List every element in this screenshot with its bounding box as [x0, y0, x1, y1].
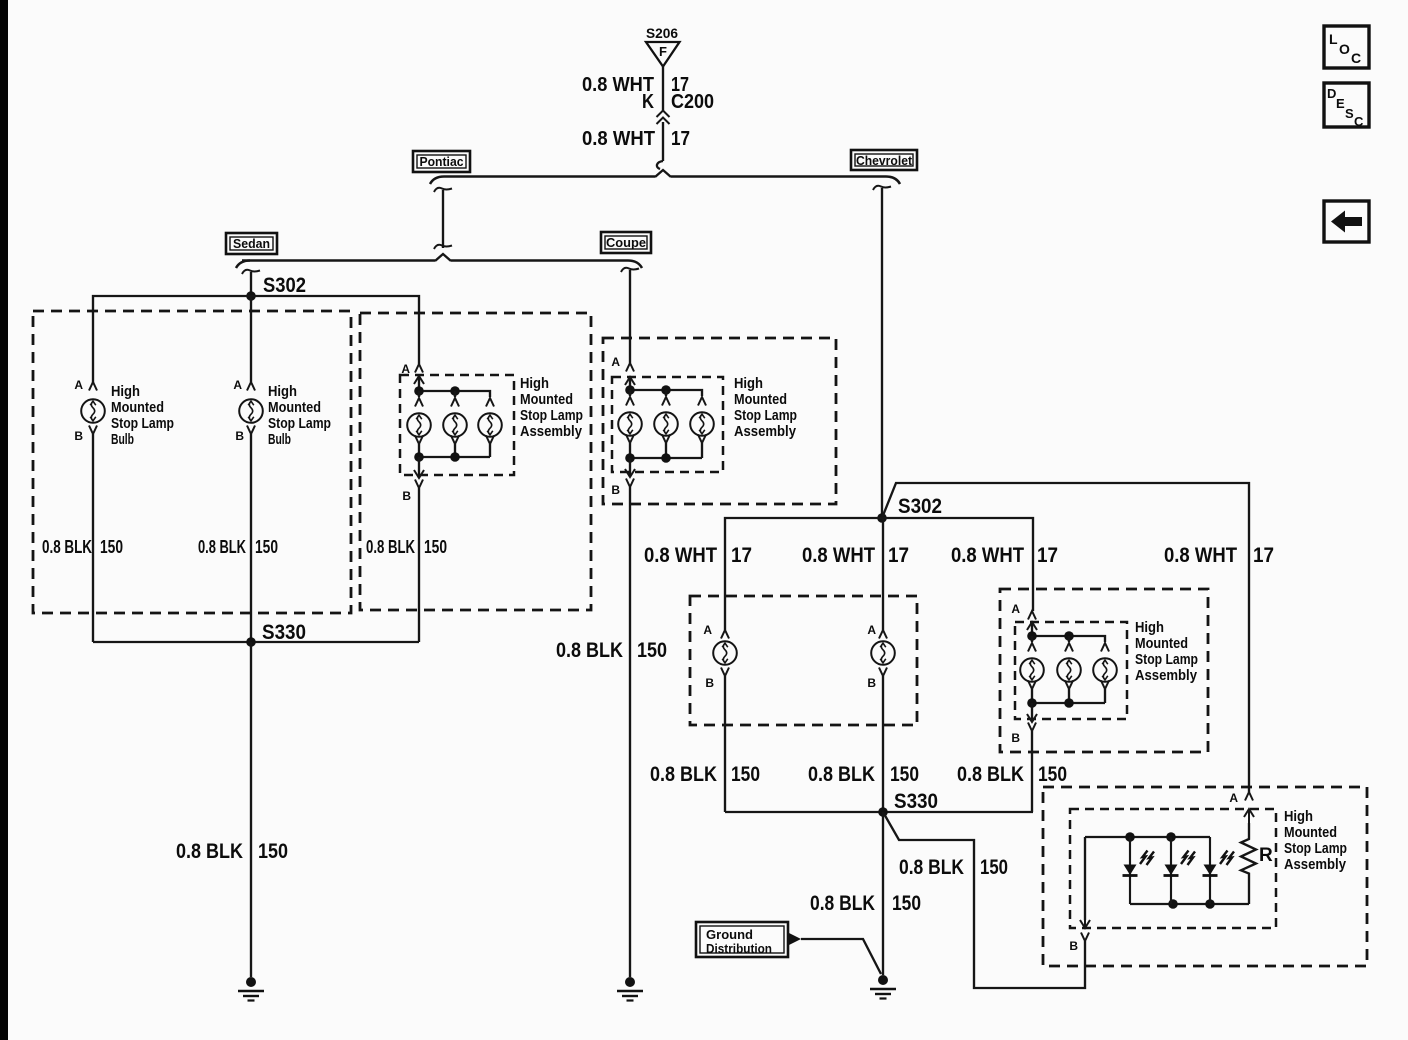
- svg-text:0.8 BLK: 0.8 BLK: [957, 763, 1024, 786]
- chevrolet ground wire: [882, 812, 884, 975]
- svg-text:A: A: [867, 623, 876, 637]
- svg-text:Assembly: Assembly: [1135, 667, 1198, 684]
- label 0.8 BLK 150 (led assembly return): [899, 856, 1008, 879]
- coupe assembly bulb a: [618, 412, 642, 436]
- sedan assembly bulb c: [478, 413, 502, 437]
- label 0.8 WHT 17 (chev wire 1): [644, 544, 752, 567]
- dashed box coupe stop lamp assembly: [603, 338, 836, 504]
- wire from S206 to C200: [662, 66, 664, 111]
- svg-text:Pontiac: Pontiac: [420, 154, 464, 169]
- svg-text:Ground: Ground: [706, 927, 753, 942]
- svg-text:0.8 WHT: 0.8 WHT: [802, 544, 875, 567]
- dashed box chevrolet stop lamp bulbs: [690, 596, 917, 725]
- DESC legend box: [1324, 83, 1369, 129]
- bulb 1 (high mounted stop lamp bulb): [81, 399, 105, 423]
- svg-text:Mounted: Mounted: [734, 391, 787, 408]
- label 0.8 BLK 150 (sedan ground): [176, 840, 288, 863]
- svg-text:17: 17: [888, 544, 909, 567]
- svg-text:Stop Lamp: Stop Lamp: [268, 415, 331, 432]
- bus left end hook: [236, 261, 250, 269]
- chev bulb1 B wire: [724, 676, 726, 812]
- sedan assembly bulb stubs top: [419, 391, 455, 397]
- svg-text:Mounted: Mounted: [268, 399, 321, 416]
- chev bulb2 B wire: [882, 676, 884, 812]
- back arrow legend box: [1324, 201, 1369, 242]
- label 0.8 BLK 150 (chev wire 1): [650, 763, 760, 786]
- svg-text:B: B: [705, 676, 714, 690]
- sedan assembly bulb a: [407, 413, 431, 437]
- Pontiac box: [413, 151, 470, 172]
- label High Mounted Stop Lamp Assembly (sedan): [520, 375, 583, 440]
- sedan top wire: [93, 296, 419, 383]
- svg-text:0.8 BLK: 0.8 BLK: [42, 537, 92, 557]
- svg-text:S206: S206: [646, 25, 678, 41]
- svg-text:Mounted: Mounted: [111, 399, 164, 416]
- svg-text:A: A: [1229, 791, 1238, 805]
- svg-text:0.8 WHT: 0.8 WHT: [1164, 544, 1237, 567]
- svg-text:Bulb: Bulb: [111, 431, 134, 448]
- connector C200 label K: [642, 91, 714, 113]
- chev assembly bottom bus: [1032, 702, 1105, 704]
- bus left end hook: [430, 177, 444, 185]
- chev assembly bulb stubs top: [1032, 636, 1069, 642]
- label High Mounted Stop Lamp Assembly (coupe): [734, 375, 797, 440]
- svg-text:0.8 BLK: 0.8 BLK: [556, 639, 623, 662]
- terminal A chev assembly: [1028, 611, 1036, 620]
- svg-text:Bulb: Bulb: [268, 431, 291, 448]
- terminal B sedan assembly: [415, 480, 423, 489]
- sedan assembly bulb b: [443, 413, 467, 437]
- svg-text:S330: S330: [894, 790, 938, 813]
- svg-text:E: E: [1336, 96, 1345, 111]
- svg-text:B: B: [74, 429, 83, 443]
- chev center wire S302 to S330: [882, 518, 884, 630]
- label 0.8 BLK 150 (chev ground): [810, 892, 921, 915]
- svg-text:B: B: [402, 489, 411, 503]
- bus right end hook: [886, 177, 900, 185]
- svg-text:D: D: [1327, 86, 1336, 101]
- junction dots coupe assembly bottom: [625, 453, 635, 463]
- svg-text:High: High: [1135, 619, 1164, 636]
- label High Mounted Stop Lamp Assembly (chev): [1135, 619, 1198, 684]
- chev bulb 2: [871, 641, 895, 665]
- label 0.8 BLK 150 (sedan assembly): [366, 537, 447, 557]
- sedan assembly top bus: [419, 376, 490, 397]
- chev assembly bulb b: [1057, 658, 1081, 682]
- junction dots coupe assembly top: [625, 385, 635, 395]
- Coupe box: [601, 232, 651, 253]
- svg-text:A: A: [611, 355, 620, 369]
- svg-text:B: B: [611, 483, 620, 497]
- chev assembly bulb c: [1093, 658, 1117, 682]
- wire S302 to far right branch: [882, 483, 1249, 792]
- coupe assembly top bus: [630, 377, 702, 396]
- svg-text:Assembly: Assembly: [520, 423, 583, 440]
- label High Mounted Stop Lamp Assembly (led): [1284, 808, 1347, 873]
- inner dashed box chev assembly: [1015, 622, 1127, 719]
- arrow out of led assembly: [1080, 914, 1090, 928]
- label 0.8 BLK 150 (chev wire 2): [808, 763, 919, 786]
- svg-text:S: S: [1345, 106, 1354, 121]
- junction dots chev assembly top: [1027, 631, 1037, 641]
- label 0.8 WHT 17 (below C200): [582, 128, 690, 150]
- terminal A led assembly: [1245, 792, 1253, 801]
- bulb 1 B terminal: [89, 426, 97, 435]
- led assembly left return wire: [1084, 837, 1086, 920]
- svg-text:Assembly: Assembly: [1284, 856, 1347, 873]
- svg-text:150: 150: [424, 537, 447, 557]
- label High Mounted Stop Lamp Bulb (bulb2): [268, 383, 331, 448]
- terminal A chev bulb2: [879, 630, 887, 639]
- svg-text:0.8 BLK: 0.8 BLK: [198, 537, 246, 557]
- wire Ground Distribution to ground: [801, 939, 881, 974]
- svg-text:B: B: [235, 429, 244, 443]
- svg-text:0.8 WHT: 0.8 WHT: [644, 544, 717, 567]
- Pontiac branch wire: [434, 188, 452, 249]
- Ground Distribution arrow: [788, 933, 801, 946]
- svg-text:17: 17: [1253, 544, 1274, 567]
- svg-text:Assembly: Assembly: [734, 423, 797, 440]
- label 0.8 WHT 17 (above C200): [582, 74, 689, 96]
- led assembly bottom bus: [1130, 903, 1249, 905]
- svg-text:0.8 BLK: 0.8 BLK: [899, 856, 964, 879]
- svg-text:R: R: [1259, 845, 1273, 866]
- svg-text:Chevrolet: Chevrolet: [856, 153, 913, 168]
- chev assembly B wire: [1031, 731, 1033, 812]
- coupe assembly B wire to ground: [629, 487, 631, 977]
- junction dots sedan assembly top: [414, 386, 424, 396]
- svg-text:150: 150: [980, 856, 1008, 879]
- svg-text:A: A: [233, 378, 242, 392]
- svg-text:A: A: [1011, 602, 1020, 616]
- terminal B coupe assembly: [626, 479, 634, 488]
- label 0.8 BLK 150 (coupe ground): [556, 639, 667, 662]
- arrow into coupe assembly: [625, 377, 635, 391]
- wire C200 to main bus: [662, 122, 664, 161]
- chev bulb1 B terminal: [721, 668, 729, 677]
- svg-text:Mounted: Mounted: [1135, 635, 1188, 652]
- label 0.8 WHT 17 (chev wire 2): [802, 544, 909, 567]
- arrow into led assembly: [1244, 809, 1254, 823]
- coupe assembly bulb b: [654, 412, 678, 436]
- chev bulb2 B terminal: [879, 668, 887, 677]
- Chevrolet box: [851, 150, 917, 170]
- svg-text:Stop Lamp: Stop Lamp: [734, 407, 797, 424]
- chev bulb 1: [713, 641, 737, 665]
- Sedan box: [226, 233, 277, 254]
- junction dots sedan assembly bottom: [414, 452, 424, 462]
- main bus wire (top horizontal): [444, 175, 886, 178]
- svg-text:F: F: [659, 44, 667, 59]
- chevrolet bottom bus wire: [725, 811, 1033, 813]
- svg-text:S302: S302: [263, 274, 306, 297]
- svg-text:Stop Lamp: Stop Lamp: [1135, 651, 1198, 668]
- svg-text:0.8 BLK: 0.8 BLK: [176, 840, 243, 863]
- svg-text:150: 150: [890, 763, 919, 786]
- svg-text:B: B: [1011, 731, 1020, 745]
- label 0.8 BLK 150 (chev wire 3): [957, 763, 1067, 786]
- LOC legend box: [1324, 26, 1369, 68]
- svg-text:0.8 BLK: 0.8 BLK: [366, 537, 415, 557]
- inner dashed box led assembly: [1070, 809, 1276, 928]
- svg-text:Stop Lamp: Stop Lamp: [520, 407, 583, 424]
- svg-text:A: A: [74, 378, 83, 392]
- svg-text:Stop Lamp: Stop Lamp: [1284, 840, 1347, 857]
- Sedan-Coupe bus wire: [242, 259, 628, 262]
- wire S330 to led assembly B: [883, 812, 1085, 988]
- Coupe branch wire: [621, 268, 639, 363]
- ground (sedan): [238, 977, 264, 1001]
- svg-text:150: 150: [637, 639, 667, 662]
- terminal B led assembly: [1081, 933, 1089, 942]
- led assembly top bus: [1085, 836, 1210, 838]
- svg-text:K: K: [642, 91, 654, 113]
- svg-text:0.8 BLK: 0.8 BLK: [808, 763, 875, 786]
- arrow out of sedan assembly: [414, 464, 424, 478]
- svg-text:Mounted: Mounted: [1284, 824, 1337, 841]
- Chevrolet branch wire: [873, 186, 891, 514]
- dashed box sedan stop lamp assembly: [360, 313, 591, 610]
- label 0.8 WHT 17 (chev wire 3): [951, 544, 1058, 567]
- svg-text:High: High: [520, 375, 549, 392]
- coupe assembly bulb stubs top: [630, 390, 666, 396]
- splice S302 (sedan): [246, 291, 256, 301]
- svg-text:17: 17: [1037, 544, 1058, 567]
- svg-text:150: 150: [100, 537, 123, 557]
- svg-text:B: B: [1069, 939, 1078, 953]
- wire hook at bus tap: [657, 161, 663, 169]
- label 0.8 BLK 150 (bulb2): [198, 537, 278, 557]
- junction dots chev assembly bottom: [1027, 698, 1037, 708]
- bus right end hook: [628, 261, 642, 269]
- sedan assembly B wire down: [418, 488, 420, 642]
- svg-text:150: 150: [1038, 763, 1067, 786]
- svg-text:150: 150: [892, 892, 921, 915]
- svg-text:0.8 BLK: 0.8 BLK: [650, 763, 717, 786]
- connector C200 symbol: [657, 111, 670, 125]
- chev assembly top bus: [1032, 622, 1105, 642]
- led 1: [1123, 837, 1155, 904]
- bulb 2 B wire down: [250, 434, 252, 642]
- bulb 2 B terminal: [247, 426, 255, 435]
- terminal A sedan assembly: [415, 364, 423, 373]
- label 0.8 WHT 17 (far right wire): [1164, 544, 1274, 567]
- svg-text:17: 17: [731, 544, 752, 567]
- resistor R: [1241, 823, 1256, 880]
- page edge bar: [0, 0, 8, 1040]
- svg-text:150: 150: [258, 840, 288, 863]
- dashed box sedan stop lamp bulbs: [33, 311, 351, 613]
- svg-text:High: High: [734, 375, 763, 392]
- arrow into sedan assembly: [414, 376, 424, 390]
- label High Mounted Stop Lamp Bulb (bulb1): [111, 383, 174, 448]
- svg-text:C200: C200: [671, 91, 714, 113]
- svg-text:L: L: [1329, 31, 1338, 47]
- Sedan branch wire: [242, 270, 260, 293]
- label 0.8 BLK 150 (bulb1): [42, 537, 123, 557]
- svg-text:0.8 WHT: 0.8 WHT: [582, 128, 655, 150]
- junction dots led top bus: [1125, 832, 1135, 842]
- splice S330 (chevrolet): [878, 807, 888, 817]
- coupe assembly bottom terminals: [626, 435, 706, 459]
- terminal A chev bulb1: [721, 630, 729, 639]
- wire to bulb 2 A: [247, 296, 255, 391]
- svg-text:Mounted: Mounted: [520, 391, 573, 408]
- Ground Distribution box: [696, 922, 788, 957]
- inner dashed box coupe assembly: [612, 377, 723, 472]
- junction dots led bottom bus: [1168, 899, 1178, 909]
- svg-text:High: High: [268, 383, 297, 400]
- svg-text:Sedan: Sedan: [233, 236, 270, 251]
- wire to bulb 1 A: [89, 382, 97, 391]
- terminal A coupe assembly: [626, 363, 634, 372]
- splice S206 triangle symbol F: [646, 42, 680, 67]
- chev assembly bottom terminals: [1028, 681, 1109, 704]
- dashed box led stop lamp assembly: [1043, 787, 1367, 966]
- svg-text:Coupe: Coupe: [606, 235, 646, 250]
- chevrolet top wire: [725, 518, 1033, 630]
- inner dashed box sedan assembly: [400, 375, 514, 475]
- bus bump at S206 tap: [655, 170, 671, 177]
- sedan assembly bottom bus: [419, 456, 490, 458]
- svg-text:High: High: [111, 383, 140, 400]
- bus bump at Pontiac tap: [435, 254, 451, 261]
- arrow out of chev assembly: [1027, 708, 1037, 722]
- arrow into chev assembly: [1027, 622, 1037, 636]
- svg-text:S302: S302: [898, 495, 942, 518]
- svg-text:O: O: [1339, 41, 1350, 57]
- led 2: [1164, 837, 1196, 904]
- arrow out of coupe assembly: [625, 463, 635, 477]
- sedan assembly bottom terminals: [415, 436, 494, 458]
- svg-text:0.8 WHT: 0.8 WHT: [951, 544, 1024, 567]
- svg-text:C: C: [1351, 50, 1361, 66]
- bulb 2 (high mounted stop lamp bulb): [239, 399, 263, 423]
- chev assembly bulb a: [1020, 658, 1044, 682]
- svg-text:High: High: [1284, 808, 1313, 825]
- sedan bottom bus wire: [93, 641, 419, 643]
- splice S302 (chevrolet): [877, 513, 887, 523]
- svg-text:0.8 BLK: 0.8 BLK: [810, 892, 875, 915]
- wire resistor to bottom bus: [1248, 880, 1250, 904]
- svg-text:A: A: [703, 623, 712, 637]
- svg-text:17: 17: [671, 128, 690, 150]
- svg-text:S330: S330: [262, 621, 306, 644]
- terminal B chev assembly: [1028, 723, 1036, 732]
- ground (coupe): [617, 977, 643, 1001]
- svg-text:B: B: [867, 676, 876, 690]
- coupe assembly bottom bus: [630, 457, 702, 459]
- bulb 1 B wire down: [92, 434, 94, 642]
- svg-text:C: C: [1354, 114, 1364, 129]
- ground (chevrolet): [870, 975, 896, 999]
- sedan ground wire: [250, 642, 252, 977]
- svg-text:150: 150: [731, 763, 760, 786]
- splice S330 (sedan): [246, 637, 256, 647]
- dashed box chevrolet stop lamp assembly: [1000, 589, 1208, 752]
- led 3: [1203, 837, 1235, 904]
- svg-text:Distribution: Distribution: [706, 941, 772, 956]
- svg-text:Stop Lamp: Stop Lamp: [111, 415, 174, 432]
- svg-text:150: 150: [255, 537, 278, 557]
- coupe assembly bulb c: [690, 412, 714, 436]
